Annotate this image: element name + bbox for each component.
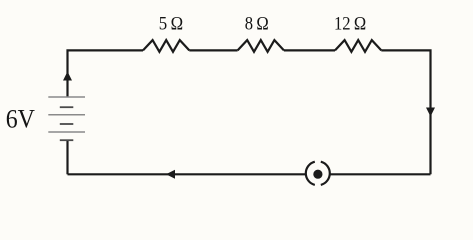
wire bottom-left segment	[68, 173, 306, 175]
meter center dot	[313, 170, 322, 179]
current arrow up (left wire)	[63, 72, 72, 81]
svg-text:6V: 6V	[6, 105, 35, 134]
svg-text:5 Ω: 5 Ω	[159, 13, 183, 34]
wire top-right segment	[381, 50, 430, 174]
wire top-left segment	[68, 50, 144, 97]
svg-text:8 Ω: 8 Ω	[245, 13, 269, 34]
current arrow left (bottom wire)	[166, 170, 175, 179]
wire between R1 and R2	[189, 49, 237, 51]
wire between R2 and R3	[284, 49, 335, 51]
meter / source symbol (circle with center dot)	[306, 162, 330, 185]
wire battery bottom stem	[66, 140, 68, 174]
wire bottom-right segment	[330, 173, 431, 175]
resistor R1 5Ω	[143, 40, 189, 52]
resistor R3 12Ω	[335, 40, 381, 52]
svg-text:12 Ω: 12 Ω	[334, 13, 366, 34]
battery B1 plates	[48, 97, 85, 140]
current arrow down (right wire)	[426, 108, 435, 117]
resistor R2 8Ω	[238, 40, 284, 52]
